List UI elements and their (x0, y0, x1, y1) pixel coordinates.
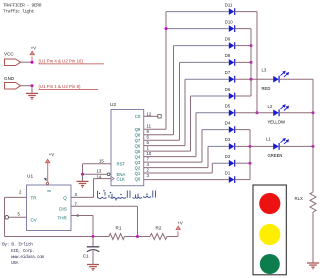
svg-text:EID, Corp.: EID, Corp. (11, 248, 35, 254)
svg-text:DIS: DIS (59, 206, 67, 211)
wire U2 Q4 pin 10 to diode row (144, 156, 196, 158)
svg-text:5: 5 (147, 140, 150, 145)
traffic light yellow lamp (259, 224, 280, 245)
wire timing net bottom (5, 236, 94, 238)
svg-text:D9: D9 (225, 36, 231, 41)
svg-text:D6: D6 (225, 87, 231, 92)
wire RLX to ground (312, 212, 314, 263)
svg-text:D8: D8 (225, 53, 231, 58)
wire D11 to yellow bus (235, 11, 257, 13)
svg-text:L2: L2 (268, 104, 273, 109)
svg-text:13: 13 (97, 169, 102, 174)
svg-text:9: 9 (147, 129, 150, 134)
svg-text:D4: D4 (225, 120, 231, 125)
wire U2 ENA pin 13 to ground net (83, 173, 108, 175)
wire D4 to green bus (235, 129, 250, 131)
svg-text:L1: L1 (266, 137, 271, 142)
bubble ENA pin (107, 173, 110, 176)
wire junction to R2 (138, 236, 151, 238)
wire U2 Q5 pin 1 to diode row (144, 150, 191, 152)
svg-text:+V: +V (177, 220, 182, 225)
node RST/ENA ground junction (81, 173, 84, 176)
node L1 RLX bus junction (312, 145, 315, 148)
wire U2 RST pin 15 to ground net (83, 163, 112, 165)
svg-text:15: 15 (99, 158, 104, 163)
svg-text:12: 12 (147, 111, 152, 116)
svg-text:Q4: Q4 (135, 154, 141, 159)
wire L1 cathode to RLX bus (279, 145, 313, 147)
svg-text:D5: D5 (225, 104, 231, 109)
wire D9 to red bus (235, 45, 251, 47)
svg-text:Q0: Q0 (135, 176, 141, 181)
wire U2 C0 pin 12 open stub (144, 115, 158, 117)
svg-text:Q5: Q5 (135, 149, 141, 154)
svg-text:GREEN: GREEN (268, 153, 283, 158)
pin 4 marker U1 (44, 178, 47, 181)
power +V (U1 supply) (47, 163, 49, 182)
node THR/TR/C1/R1 junction (92, 235, 95, 238)
wire D1 to green bus (235, 179, 250, 181)
wire L3 cathode to RLX bus (279, 78, 313, 80)
svg-text:www.eidusa.com: www.eidusa.com (11, 254, 45, 260)
wire red row D7 to LED L3 (235, 78, 274, 80)
traffic light body (253, 185, 286, 275)
svg-text:Q8: Q8 (135, 133, 141, 138)
wire U2 Q3 pin 7 to diode row (144, 161, 202, 163)
clock marker U2 (111, 176, 114, 180)
svg-text:GND: GND (4, 76, 15, 81)
node red bus to red row junction (250, 78, 253, 81)
svg-text:D1: D1 (225, 170, 231, 175)
svg-text:D3: D3 (225, 137, 231, 142)
ground (U2 RST/ENA) (82, 174, 84, 181)
wire U2 Q9 pin 11 to diode row (144, 128, 166, 130)
wire U2 CLK pin 14 (94, 178, 112, 180)
wire bus green vertical (249, 130, 251, 180)
wire U2 Q8 pin 9 to diode row (144, 134, 174, 136)
svg-text:(U1 Pin 4 & U2 Pin 16): (U1 Pin 4 & U2 Pin 16) (39, 58, 84, 63)
ground (C1) (87, 265, 99, 269)
wire D6 to red bus (235, 95, 251, 97)
svg-text:D10: D10 (225, 19, 233, 24)
svg-text:Traffic light: Traffic light (3, 9, 35, 15)
wire L2 cathode to RLX bus (279, 112, 313, 114)
node D8 red bus junction (250, 61, 253, 64)
svg-text:+V: +V (31, 46, 36, 51)
svg-text:RST: RST (117, 162, 126, 167)
power +V (VCC rail) (31, 57, 33, 63)
svg-text:Q2: Q2 (135, 165, 141, 170)
svg-text:4: 4 (147, 162, 150, 167)
svg-text:D7: D7 (225, 70, 231, 75)
ground (input rail) (31, 86, 33, 93)
node VCC junction (31, 61, 34, 64)
svg-text:10: 10 (147, 151, 152, 156)
svg-text:USA: USA (11, 260, 19, 266)
svg-text:R1: R1 (116, 225, 122, 230)
svg-text:Q6: Q6 (135, 143, 141, 148)
svg-text:RLX: RLX (295, 196, 303, 201)
svg-text:R2: R2 (156, 225, 162, 230)
svg-text:1: 1 (147, 146, 150, 151)
svg-text:(U1 Pin 1 & U2 Pin 8): (U1 Pin 1 & U2 Pin 8) (39, 84, 82, 89)
wire U2 Q0 pin 3 to diode D1 (144, 179, 229, 181)
svg-text:THR: THR (58, 216, 68, 221)
wire U2 Q1 pin 2 to diode row (144, 172, 213, 174)
svg-text:7: 7 (75, 201, 78, 206)
wire U2 Q2 pin 4 to diode row (144, 167, 208, 169)
svg-text:C1: C1 (83, 253, 89, 258)
svg-text:Q7: Q7 (135, 138, 141, 143)
wire U2 Q7 pin 6 to diode row (144, 139, 180, 141)
svg-text:11: 11 (147, 124, 152, 129)
svg-text:2: 2 (19, 190, 22, 195)
svg-text:RED: RED (262, 86, 271, 91)
svg-text:Q3: Q3 (135, 160, 141, 165)
wire U2 Q6 pin 5 to diode row (144, 145, 185, 147)
svg-text:Q9: Q9 (135, 127, 141, 132)
wire junction to R1 (93, 236, 109, 238)
svg-text:C0: C0 (135, 114, 141, 119)
wire green row D3 to LED L1 (235, 145, 274, 147)
svg-text:CLK: CLK (117, 177, 125, 182)
svg-text:L3: L3 (262, 68, 267, 73)
wire GND to ground node (21, 85, 34, 87)
svg-text:By: B. Erlich: By: B. Erlich (2, 242, 33, 248)
wire yellow row D5 to LED L2 (235, 112, 274, 114)
wire U1 THR pin 6 (71, 215, 93, 217)
wire D8 to red bus (235, 61, 251, 63)
svg-text:YELLOW: YELLOW (268, 120, 286, 125)
node L2 RLX bus junction (312, 111, 315, 114)
node yellow bus to yellow row junction (256, 111, 259, 114)
wire bus red vertical (250, 29, 252, 96)
svg-text:+V: +V (49, 152, 54, 157)
svg-text:D2: D2 (225, 154, 231, 159)
ground (RLX) (307, 263, 319, 267)
svg-text:D11: D11 (225, 2, 233, 7)
svg-text:Q: Q (63, 196, 67, 201)
svg-text:2: 2 (147, 168, 150, 173)
svg-text:6: 6 (147, 135, 150, 140)
svg-text:TR: TR (31, 196, 38, 201)
node green bus to green row junction (249, 145, 252, 148)
svg-text:TRAFFICER - 9ER0: TRAFFICER - 9ER0 (3, 2, 42, 8)
node GND junction (31, 84, 34, 87)
node D2 green bus junction (249, 162, 252, 165)
wire U1 DIS pin 7 (71, 205, 138, 207)
svg-text:3: 3 (75, 192, 78, 197)
svg-text:U1: U1 (27, 174, 33, 180)
svg-text:3: 3 (147, 173, 150, 178)
wire U1 CV pin 5 stub (9, 216, 27, 218)
node D9 red bus junction (250, 44, 253, 47)
wire D2 to green bus (235, 162, 250, 164)
wire D10 to red bus (235, 28, 251, 30)
svg-text:7: 7 (147, 157, 150, 162)
wire bus yellow vertical from D11 (256, 12, 258, 113)
svg-text:5: 5 (18, 212, 21, 217)
wire U1 TR pin 2 feedback (5, 196, 27, 198)
svg-text:∞: ∞ (47, 188, 51, 194)
svg-text:Q1: Q1 (135, 171, 141, 176)
traffic light red lamp (259, 193, 280, 214)
traffic light green lamp (260, 254, 280, 274)
wire U1 Q pin 3 to U2 CLK (71, 196, 94, 198)
wire VCC to +V node (21, 61, 34, 63)
power +V (R2 pull-up) (177, 231, 179, 236)
svg-text:VCC: VCC (4, 52, 14, 57)
logo arabic text (98, 191, 156, 199)
svg-text:CV: CV (31, 218, 37, 223)
wire RLX bus vertical (312, 79, 314, 192)
node R1/R2/DIS junction (136, 235, 139, 238)
node D10 junction on Q9 riser (165, 27, 168, 30)
svg-text:U2: U2 (110, 102, 116, 108)
